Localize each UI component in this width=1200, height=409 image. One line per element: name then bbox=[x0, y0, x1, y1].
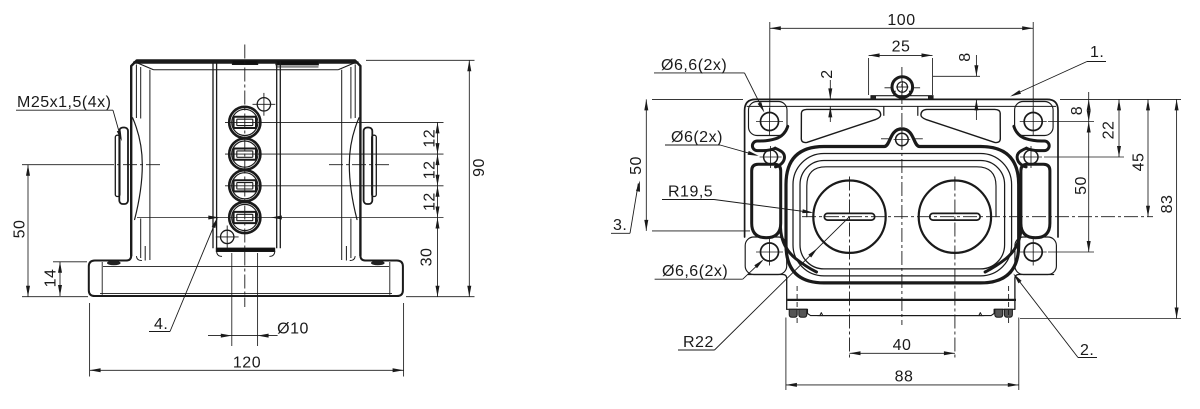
left view: body inner line right bbox=[354, 65, 356, 119]
left view: gland left cone lens bbox=[133, 118, 143, 220]
ext line 8 knob top bbox=[933, 75, 980, 77]
svg-text:14: 14 bbox=[43, 269, 60, 288]
left view: gland right stub bbox=[372, 135, 377, 196]
dim 12 chain bbox=[437, 122, 439, 217]
right view: centre vertical line bbox=[901, 67, 903, 325]
ext phi6 right to dim bbox=[1044, 156, 1124, 158]
left view: row line 2 bbox=[225, 153, 444, 155]
right view: corner hole TR bbox=[1024, 113, 1042, 131]
svg-text:3.: 3. bbox=[613, 217, 627, 234]
svg-text:R19,5: R19,5 bbox=[668, 184, 713, 201]
svg-text:120: 120 bbox=[233, 355, 261, 372]
left view: inner vertical right3 bbox=[341, 70, 343, 260]
svg-text:2.: 2. bbox=[1080, 342, 1094, 359]
right view: gasket ring 3 bbox=[800, 161, 1005, 269]
svg-text:Ø6(2x): Ø6(2x) bbox=[671, 129, 723, 146]
left view: inner vertical left3 bbox=[149, 70, 151, 260]
right view: corner pocket TR bbox=[1015, 102, 1054, 136]
left view: gland left stub bbox=[115, 135, 120, 196]
ext top edge left bbox=[652, 98, 743, 100]
dim 90 bbox=[468, 60, 470, 296]
right view: membrane circle at 849.5 bbox=[813, 181, 885, 253]
svg-text:Ø6,6(2x): Ø6,6(2x) bbox=[661, 57, 727, 74]
right view: corner pocket BL bbox=[745, 237, 787, 275]
svg-text:4.: 4. bbox=[154, 316, 168, 333]
right view: cover screw hole top bbox=[896, 133, 909, 146]
left view: inner chamfer left bbox=[134, 62, 154, 70]
dim 8 right side bbox=[1088, 92, 1090, 99]
right view: membrane circle at 954.9 bbox=[919, 181, 991, 253]
left view: gland right cone lens bbox=[349, 118, 359, 220]
dim 40 bbox=[850, 352, 955, 354]
ext top edge right bbox=[1060, 98, 1181, 100]
svg-text:R22: R22 bbox=[683, 334, 714, 351]
right view: skirt and feet left bbox=[787, 309, 984, 315]
svg-text:M25x1,5(4x): M25x1,5(4x) bbox=[17, 94, 111, 111]
svg-text:8: 8 bbox=[957, 52, 974, 61]
right view: top inner edge line bbox=[747, 105, 1056, 107]
dim 2 top bbox=[829, 80, 831, 99]
right view: membranes horizontal centreline bbox=[802, 216, 1153, 218]
dim phi10 bbox=[208, 335, 278, 337]
dim 22 bbox=[1118, 99, 1120, 157]
svg-text:12: 12 bbox=[422, 161, 439, 180]
right view: corner hole BL bbox=[761, 243, 779, 261]
left view: terminal screws x4 bbox=[229, 107, 260, 138]
right view: skirt and feet right bbox=[818, 309, 1015, 317]
dim 8 top bbox=[975, 55, 977, 76]
right view: cover contour right bbox=[985, 126, 1050, 272]
left view: body-base fillet left bbox=[126, 256, 131, 261]
left view: column step fillets bbox=[217, 252, 222, 257]
svg-text:2: 2 bbox=[819, 69, 836, 78]
right view: gasket ring 4 (open) bbox=[807, 167, 996, 217]
left view: body top edge thick bbox=[133, 61, 359, 63]
svg-text:8: 8 bbox=[1069, 106, 1086, 115]
left view: base top front edge bbox=[103, 266, 389, 268]
ext hole TR cross to dim bbox=[1048, 121, 1094, 123]
left view: row line 1 bbox=[225, 121, 444, 123]
left view: gland left cap bbox=[119, 128, 128, 205]
foot centrelines dashed bbox=[796, 286, 798, 324]
right view: top pocket left bbox=[801, 109, 880, 142]
dim 83 bbox=[1176, 99, 1178, 318]
left view: centre mark top bbox=[257, 98, 270, 111]
dim 88 bbox=[786, 384, 1019, 386]
right view: side hole phi6 left bbox=[764, 150, 778, 164]
left view: inner chamfer right bbox=[338, 62, 358, 70]
ext lines 25 bbox=[868, 58, 870, 95]
left view: base corner tangent right bbox=[389, 262, 391, 295]
left view: divider left bbox=[212, 62, 214, 249]
right view: top pocket centre gap lines bbox=[883, 106, 885, 115]
left view: body inner line right2 bbox=[350, 67, 352, 119]
dim 50 left bbox=[27, 165, 29, 297]
dim 50 right side bbox=[1088, 122, 1090, 253]
dim 25 bbox=[869, 54, 933, 56]
right view: corner pocket BR bbox=[1015, 237, 1057, 275]
svg-text:50: 50 bbox=[628, 156, 645, 175]
svg-text:25: 25 bbox=[892, 39, 911, 56]
dim 30 bbox=[437, 218, 439, 297]
left view: row line 3 bbox=[225, 185, 444, 187]
left view: base gland shadow right bbox=[371, 261, 385, 266]
left view: row line 4 with arrows bbox=[137, 217, 444, 219]
right view: bottom contour left bbox=[748, 275, 787, 310]
right view: top tab plate bbox=[871, 96, 933, 100]
ext 50 left bottom bbox=[652, 230, 750, 232]
svg-text:50: 50 bbox=[1073, 176, 1090, 195]
left view: base corner tangent left bbox=[101, 262, 103, 295]
ext 88 sides bbox=[785, 318, 787, 391]
right view: cover contour left bbox=[752, 126, 787, 150]
svg-text:40: 40 bbox=[893, 337, 912, 354]
left view: base bottom foot line bbox=[100, 293, 392, 295]
svg-text:90: 90 bbox=[471, 158, 488, 177]
right view: corner pocket TL bbox=[749, 102, 788, 136]
right view: gasket ring 2 bbox=[793, 154, 1012, 276]
dim 100 bbox=[770, 27, 1033, 29]
svg-text:45: 45 bbox=[1131, 153, 1148, 172]
svg-text:50: 50 bbox=[12, 220, 29, 239]
right view: gasket ring outer thick with screw bump bbox=[786, 129, 1019, 283]
right view: bottom contour right bbox=[1015, 275, 1054, 310]
svg-text:22: 22 bbox=[1101, 121, 1118, 140]
dim 120 bbox=[90, 369, 404, 371]
left view: body inner line left bbox=[135, 65, 137, 119]
left view: phi10 extension lines bbox=[231, 253, 233, 346]
left view: top vent bar centre bbox=[232, 60, 257, 64]
right view: side hole phi6 right bbox=[1024, 150, 1038, 164]
dim 45 bbox=[1147, 99, 1149, 216]
left view: base plate bbox=[89, 256, 403, 297]
left view: centre mark bottom bbox=[221, 230, 234, 243]
svg-text:1.: 1. bbox=[1090, 44, 1104, 61]
left view: vertical centreline bbox=[244, 45, 246, 308]
left view: gland right cap bbox=[364, 128, 373, 205]
left view: divider right bbox=[276, 62, 278, 249]
left view: column bottom bar bbox=[216, 248, 275, 252]
dim 14 bbox=[59, 262, 61, 296]
left view: gland centreline right bbox=[329, 164, 392, 166]
svg-text:88: 88 bbox=[895, 369, 914, 386]
svg-text:Ø6,6(2x): Ø6,6(2x) bbox=[662, 263, 728, 280]
right view: knob bbox=[892, 77, 913, 98]
svg-text:Ø10: Ø10 bbox=[277, 321, 309, 338]
right view: corner hole BR bbox=[1024, 243, 1042, 261]
left view: top vent bar right bbox=[276, 61, 319, 65]
left view: body outline bbox=[131, 60, 360, 255]
left view: body-base fillet right bbox=[360, 256, 365, 261]
svg-text:30: 30 bbox=[419, 248, 436, 267]
left view: inner top line bbox=[154, 69, 339, 71]
svg-text:83: 83 bbox=[1159, 195, 1176, 214]
right view: top pocket right bbox=[921, 109, 1000, 142]
dim 50 left side bbox=[645, 99, 647, 231]
left view: base gland shadow left bbox=[107, 261, 121, 266]
ext lines 100 bbox=[769, 22, 771, 112]
left view: body inner line left2 bbox=[140, 67, 142, 119]
svg-text:12: 12 bbox=[422, 129, 439, 148]
right view: outer body outline bbox=[745, 99, 1058, 237]
right view: body bottom edge bbox=[787, 299, 1016, 301]
left view: line under right vent bar bbox=[276, 66, 319, 68]
ext bottom 83 bbox=[1020, 318, 1181, 320]
left view: gland centreline left bbox=[100, 164, 162, 166]
right view: corner hole TL bbox=[761, 113, 779, 131]
svg-text:100: 100 bbox=[887, 12, 915, 29]
